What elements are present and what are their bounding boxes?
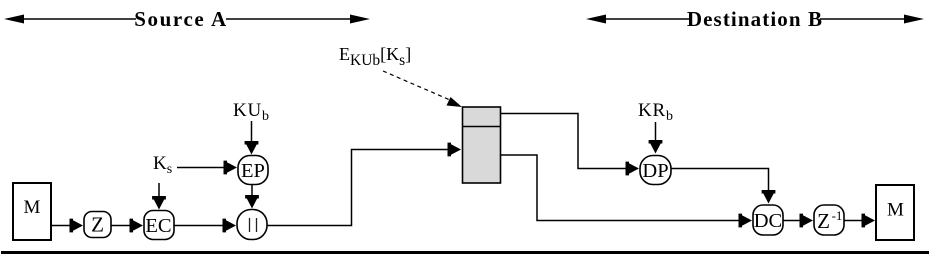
svg-text:M: M [887,200,904,221]
node EC (conventional encryption) [144,211,174,240]
wire DP to DC [671,169,775,204]
wire Z to EC [111,219,143,233]
wire key block to DC [501,155,753,227]
Source A span arrow [4,7,370,31]
svg-text:M: M [24,197,41,218]
svg-text:DC: DC [754,210,782,232]
wire M to Z [51,219,83,233]
svg-text:Source A: Source A [134,7,228,31]
box M (source message) [13,183,51,240]
wire Ks to EP [177,161,237,175]
svg-text:Destination B: Destination B [687,7,823,31]
key block (shaded) [463,107,501,183]
wire EC to concat [174,219,236,233]
wire DC to Z-1 [783,214,813,228]
node Z (compress) [84,212,111,238]
arrow KUb down into EP [245,121,259,155]
node DC (conventional decryption) [753,205,783,235]
svg-text:Z: Z [91,213,104,237]
wire key block to DP [501,114,640,176]
arrow KRb down into DP [649,122,663,154]
svg-text:DP: DP [642,160,668,182]
node concat || [237,210,267,240]
key block divider [463,126,501,128]
svg-text:EP: EP [241,160,265,182]
arrow EP down into concat [245,185,259,209]
arrow Ks down into EC [152,183,166,210]
node DP (public-key decryption) [640,156,671,185]
node EP (public-key encryption) [238,156,268,185]
svg-text:-1: -1 [832,208,843,223]
box M (destination message) [876,185,914,240]
node Z-1 (decompress) [814,205,844,235]
bottom rule [1,251,929,254]
dashed arrow EKUb[Ks] to key block [383,71,462,107]
svg-text:Z: Z [817,209,830,233]
wire concat up to key block [267,143,461,226]
Destination B span arrow [586,7,924,31]
wire Z-1 to M [844,214,875,228]
svg-text:EC: EC [145,215,171,237]
